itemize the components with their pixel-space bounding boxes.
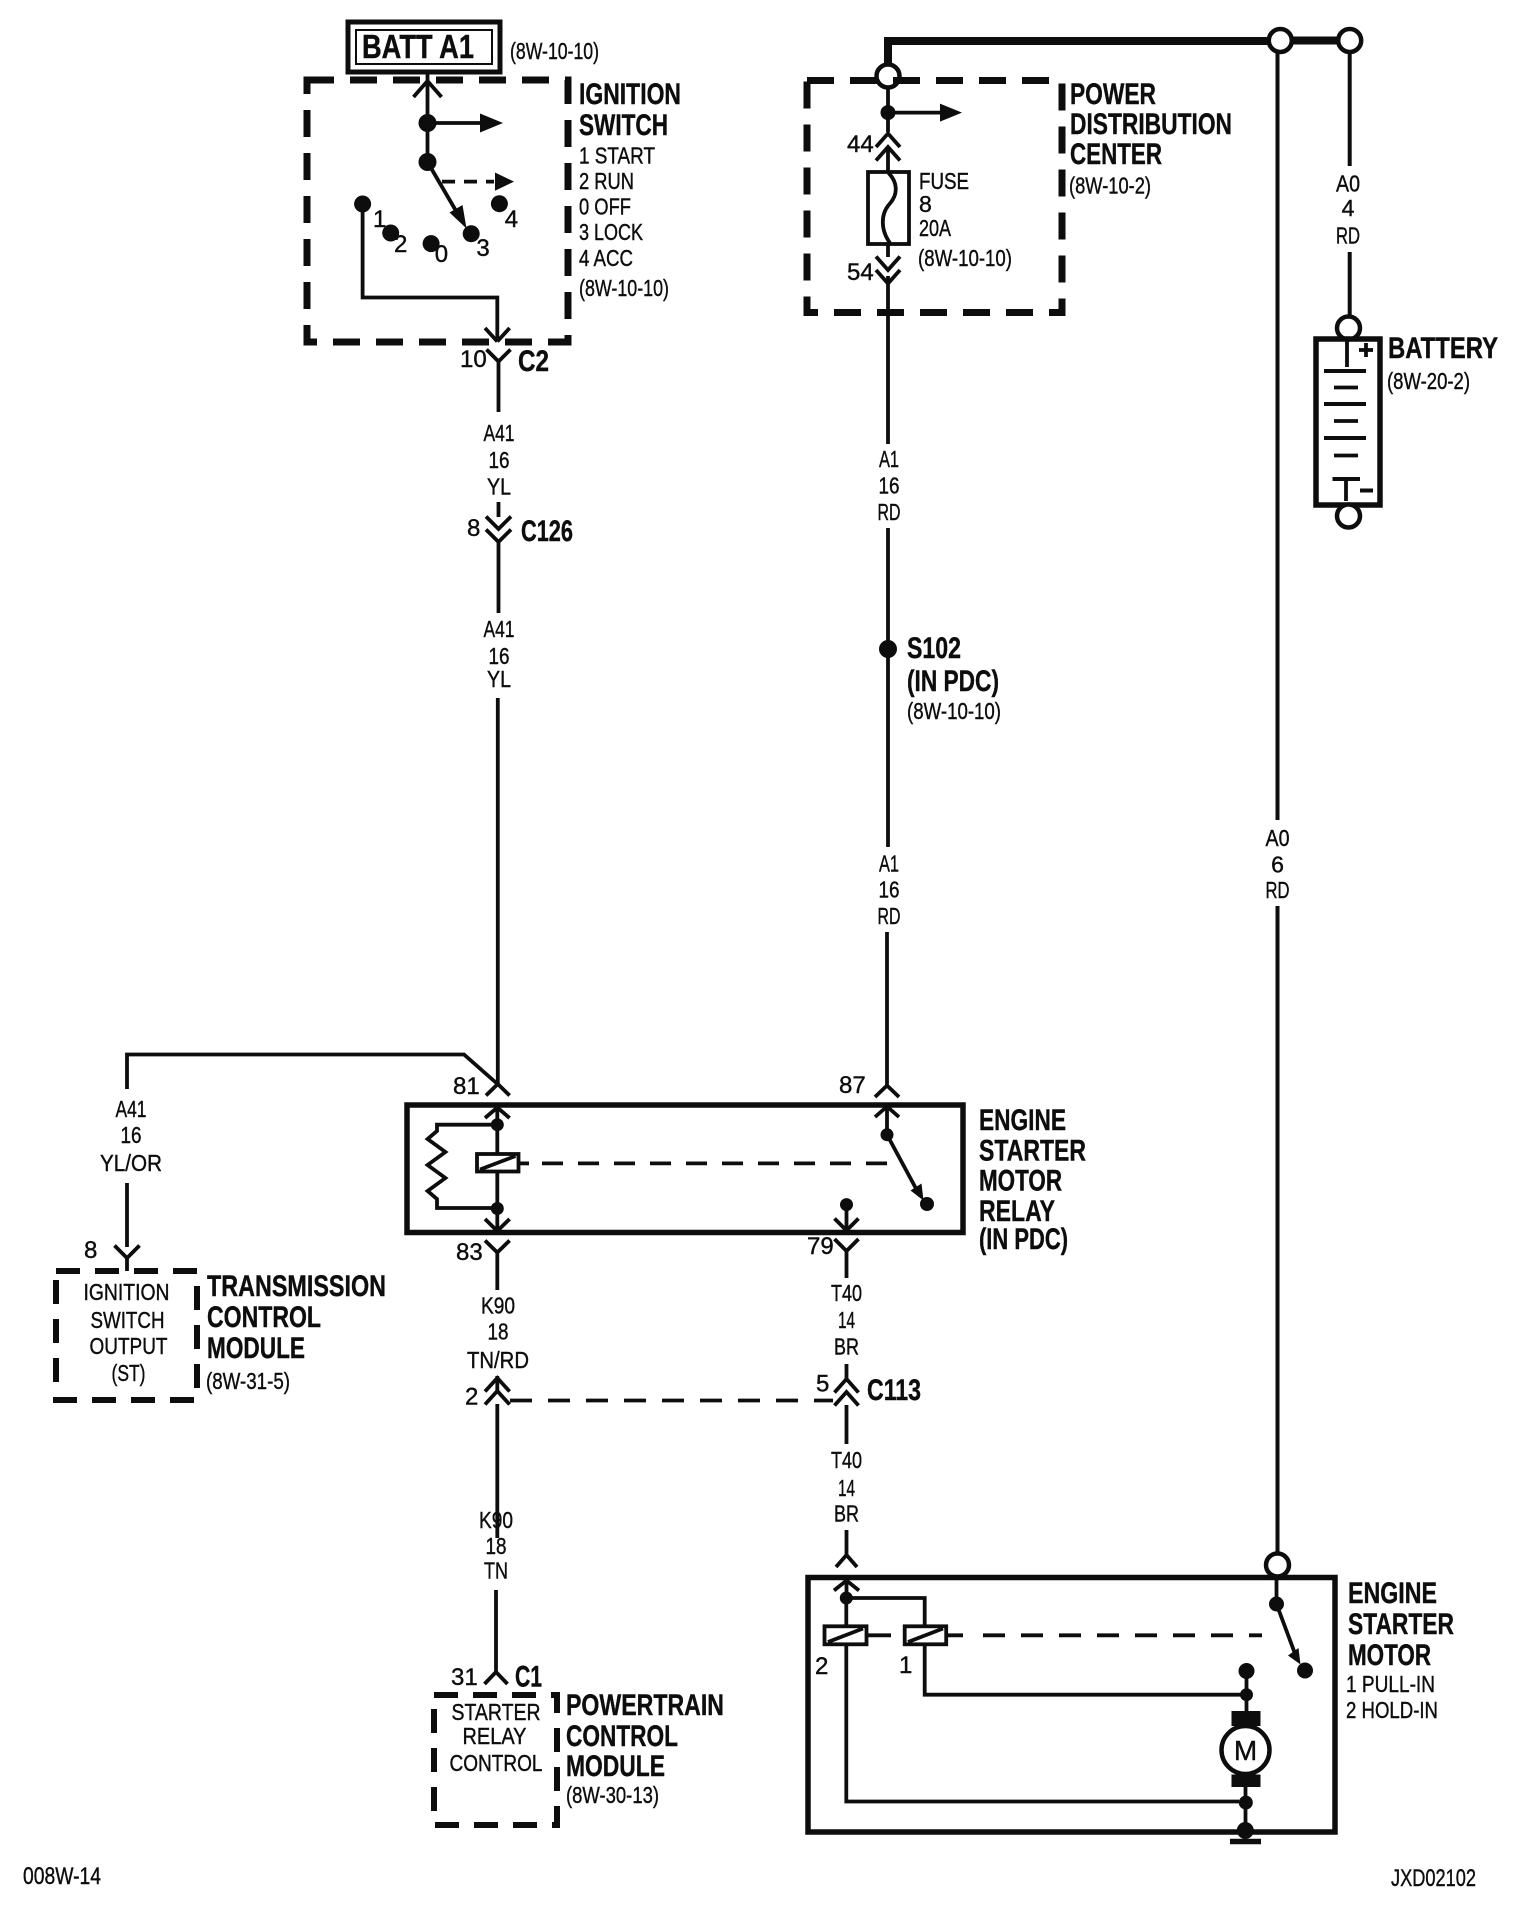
wire motor to bottom junction dot	[1244, 1787, 1248, 1802]
transmission control module dashed box	[56, 1271, 197, 1400]
relay common contact dot	[881, 1128, 894, 1141]
TCM internal label IGNITION SWITCH OUTPUT (ST)	[84, 1279, 170, 1386]
svg-text:A41: A41	[484, 616, 515, 642]
svg-text:81: 81	[453, 1073, 480, 1100]
svg-text:A1: A1	[879, 446, 899, 472]
engine starter motor box	[808, 1578, 1335, 1833]
fuse text FUSE 8 20A (8W-10-10)	[918, 168, 1012, 271]
battery internal top lead	[1345, 341, 1349, 367]
relay normally-open contact dot	[920, 1197, 934, 1211]
svg-text:ENGINE: ENGINE	[979, 1104, 1066, 1137]
svg-text:14: 14	[838, 1475, 855, 1501]
connector C113 pin 2 double chevron	[485, 1378, 510, 1538]
solenoid switch arm with arrowhead	[1277, 1604, 1301, 1665]
TCM pin 8 fork symbol	[115, 1246, 140, 1272]
hold-in coil 2 element	[825, 1598, 892, 1644]
svg-text:CONTROL: CONTROL	[450, 1750, 543, 1776]
svg-text:8: 8	[467, 515, 480, 542]
relay title ENGINE STARTER MOTOR RELAY (IN PDC)	[979, 1104, 1086, 1256]
wire down to splice S102	[886, 528, 890, 642]
splice label S102 (IN PDC) (8W-10-10)	[907, 632, 1001, 724]
relay pin 79 exit arrow	[835, 1205, 859, 1231]
svg-text:10: 10	[460, 346, 487, 373]
svg-text:MODULE: MODULE	[566, 1750, 665, 1783]
svg-text:IGNITION: IGNITION	[84, 1279, 170, 1305]
svg-text:(8W-10-10): (8W-10-10)	[918, 245, 1012, 271]
wire relay pin 79 down	[845, 1266, 849, 1278]
relay pin 87 entry chevron inside box	[875, 1107, 899, 1130]
svg-text:S102: S102	[907, 632, 961, 665]
connector C113 pin 5 double chevron	[835, 1364, 859, 1444]
relay resistor (parallel with coil)	[428, 1125, 498, 1208]
svg-text:MOTOR: MOTOR	[979, 1165, 1062, 1198]
svg-text:008W-14: 008W-14	[23, 1863, 101, 1890]
svg-text:STARTER: STARTER	[452, 1699, 541, 1725]
relay pin 79 contact dot	[840, 1198, 853, 1211]
wire C126 to relay pin 81	[496, 698, 500, 1084]
wire ring to solenoid pivot	[1275, 1576, 1279, 1599]
svg-text:16: 16	[879, 473, 900, 499]
svg-text:CONTROL: CONTROL	[207, 1301, 321, 1334]
svg-text:3 LOCK: 3 LOCK	[579, 219, 644, 245]
svg-text:14: 14	[838, 1307, 855, 1333]
svg-text:RD: RD	[878, 903, 901, 929]
switch position contact 0	[423, 235, 440, 252]
svg-text:79: 79	[807, 1233, 834, 1260]
relay coil bottom junction dot	[491, 1202, 504, 1215]
svg-text:A41: A41	[116, 1096, 147, 1122]
svg-text:20A: 20A	[919, 215, 952, 241]
wire label T40 14 BR (upper)	[831, 1280, 862, 1360]
svg-text:(IN PDC): (IN PDC)	[979, 1223, 1068, 1256]
power distribution center dashed box	[807, 81, 1062, 313]
wire A0 4 RD down to battery ring	[1348, 252, 1352, 318]
ignition switch heading text	[579, 78, 681, 142]
branch wire to transmission control module	[127, 1055, 498, 1090]
ring terminal battery junction on bus	[1269, 29, 1292, 52]
battery minus sign	[1360, 489, 1373, 493]
PDC heading POWER DISTRIBUTION CENTER	[1070, 78, 1232, 171]
relay pin 81 fork above box	[486, 1084, 510, 1096]
svg-text:1 PULL-IN: 1 PULL-IN	[1346, 1671, 1435, 1697]
ignition switch wiper arm to position 3	[428, 162, 467, 229]
svg-text:31: 31	[451, 1664, 478, 1691]
arrow feed to other circuits	[428, 114, 504, 133]
fuse 8 element box	[868, 172, 909, 244]
wire feed dot to wiper pivot	[426, 123, 430, 162]
svg-text:5: 5	[816, 1371, 829, 1398]
svg-text:M: M	[1234, 1735, 1257, 1766]
svg-text:TRANSMISSION: TRANSMISSION	[207, 1270, 386, 1303]
svg-text:(8W-31-5): (8W-31-5)	[206, 1368, 290, 1394]
ring terminal at PDC top	[877, 65, 900, 88]
wire thick top bus from PDC to battery junction	[888, 41, 1269, 65]
wire junction dot to pin 44	[886, 113, 890, 132]
svg-text:C126: C126	[521, 515, 573, 548]
motor feed contact dot (upper)	[1239, 1663, 1255, 1679]
svg-text:83: 83	[456, 1239, 483, 1266]
svg-text:18: 18	[486, 1533, 507, 1559]
svg-text:TN/RD: TN/RD	[467, 1347, 529, 1373]
dashed mechanical link coil 1 to solenoid contact	[983, 1633, 1262, 1637]
svg-text:3: 3	[476, 235, 489, 262]
dashed connector line C113	[510, 1399, 833, 1403]
motor feed junction dot	[840, 1592, 853, 1605]
connector C2 exit arrow at box edge	[485, 328, 510, 342]
svg-text:YL: YL	[487, 666, 511, 692]
ring terminal at motor box top	[1266, 1554, 1289, 1577]
relay pin 87 fork above box	[875, 1074, 899, 1098]
powertrain control module dashed box	[434, 1695, 557, 1825]
wire pin 54 down out of PDC	[886, 276, 890, 444]
relay coil element	[477, 1125, 529, 1209]
wire hold-in coil 2 to bottom junction	[846, 1644, 1239, 1801]
svg-text:BATTERY: BATTERY	[1388, 332, 1498, 365]
solenoid moving contact end dot	[1297, 1663, 1313, 1679]
wire label A41 16 YL (lower)	[484, 616, 515, 692]
ring terminal battery negative	[1337, 505, 1360, 528]
svg-text:MODULE: MODULE	[207, 1332, 305, 1365]
wire ring2 down to battery	[1348, 52, 1352, 166]
wire label T40 14 BR (lower)	[831, 1447, 862, 1527]
wire relay pin 83 down	[495, 1266, 499, 1290]
battery box	[1316, 339, 1380, 505]
junction dot in PDC	[881, 105, 896, 120]
wire label K90 18 TN/RD	[467, 1293, 529, 1374]
wire BATT A1 down into ignition switch with entry chevron	[414, 73, 442, 123]
wire A0 6 RD down to engine starter motor	[1276, 906, 1280, 1554]
wire ring down long A0 6 RD run	[1276, 52, 1280, 820]
svg-text:BR: BR	[834, 1501, 859, 1527]
node BATT A1 feed box	[348, 22, 500, 72]
relay pin 83 exit arrow	[485, 1209, 510, 1232]
svg-text:BATT A1: BATT A1	[362, 28, 474, 65]
svg-text:T40: T40	[831, 1447, 862, 1473]
wire S102 down	[886, 656, 890, 847]
svg-text:RELAY: RELAY	[463, 1723, 527, 1749]
svg-text:2 RUN: 2 RUN	[579, 168, 634, 194]
svg-text:RD: RD	[878, 499, 901, 525]
svg-text:16: 16	[879, 877, 900, 903]
svg-text:STARTER: STARTER	[979, 1134, 1086, 1167]
wire label A0 6 RD	[1266, 825, 1290, 903]
svg-text:SWITCH: SWITCH	[91, 1307, 165, 1333]
battery cell plates	[1324, 371, 1366, 456]
svg-text:(8W-10-10): (8W-10-10)	[510, 38, 599, 64]
battery plus sign	[1359, 343, 1373, 357]
svg-text:(8W-30-13): (8W-30-13)	[566, 1782, 659, 1808]
svg-text:TN: TN	[484, 1558, 508, 1584]
connector C126 double chevron	[486, 517, 511, 543]
motor top junction dot	[1240, 1688, 1253, 1701]
wire segment above C126	[497, 502, 501, 517]
svg-text:IGNITION: IGNITION	[579, 78, 681, 111]
arrow to other PDC circuits	[888, 104, 962, 122]
ignition switch wiper pivot dot	[419, 153, 437, 171]
svg-text:POWER: POWER	[1070, 78, 1156, 111]
svg-text:6: 6	[1271, 852, 1284, 878]
svg-text:A1: A1	[879, 851, 899, 877]
svg-text:8: 8	[84, 1237, 97, 1264]
switch position contact 4	[491, 195, 508, 212]
wire label A41 16 YL (upper)	[484, 420, 515, 500]
svg-text:(8W-10-10): (8W-10-10)	[579, 275, 669, 301]
pull-in coil 1 element	[905, 1626, 963, 1644]
svg-text:4: 4	[505, 206, 518, 233]
wire fuse to pin 54	[886, 244, 890, 257]
svg-text:POWERTRAIN: POWERTRAIN	[566, 1689, 724, 1722]
dashed mechanical link relay coil to contact	[542, 1162, 897, 1166]
svg-text:1: 1	[899, 1652, 912, 1679]
wire coil 1 to motor top junction	[925, 1644, 1241, 1694]
svg-text:0: 0	[435, 241, 448, 268]
svg-text:K90: K90	[481, 1293, 515, 1319]
svg-text:(8W-10-10): (8W-10-10)	[907, 698, 1001, 724]
svg-text:4: 4	[1342, 195, 1355, 221]
svg-text:C1: C1	[515, 1661, 542, 1694]
svg-text:54: 54	[847, 259, 874, 286]
TCM title TRANSMISSION CONTROL MODULE	[207, 1270, 386, 1365]
motor title ENGINE STARTER MOTOR	[1348, 1577, 1454, 1672]
wire K90 18 TN down to C1	[494, 1590, 498, 1667]
svg-text:(8W-10-2): (8W-10-2)	[1069, 173, 1151, 199]
svg-text:16: 16	[121, 1122, 142, 1148]
wire thick bus between rings	[1292, 37, 1339, 45]
switch position contact 3	[463, 225, 480, 242]
svg-text:SWITCH: SWITCH	[579, 109, 668, 142]
connector C2 fork symbol	[487, 350, 511, 413]
svg-text:CENTER: CENTER	[1070, 138, 1162, 171]
svg-text:RD: RD	[1266, 877, 1290, 903]
svg-text:2: 2	[394, 231, 407, 258]
switch position contact 1	[354, 196, 371, 213]
wire ring to junction dot	[886, 88, 890, 108]
svg-text:JXD02102: JXD02102	[1391, 1865, 1476, 1892]
svg-text:87: 87	[839, 1072, 866, 1099]
svg-text:16: 16	[489, 447, 510, 473]
svg-text:DISTRIBUTION: DISTRIBUTION	[1070, 108, 1232, 141]
solenoid contact pivot dot	[1269, 1597, 1284, 1612]
motor legend 1 PULL-IN 2 HOLD-IN	[1346, 1671, 1438, 1723]
svg-text:2: 2	[815, 1653, 828, 1680]
motor M with terminals	[1222, 1711, 1270, 1787]
wire label A41 16 YL/OR	[100, 1096, 162, 1176]
wire down to C113 pin 2	[495, 1376, 499, 1391]
svg-text:2: 2	[465, 1384, 478, 1411]
ignition switch position list text	[579, 143, 669, 302]
relay pin 79 fork below box	[835, 1239, 859, 1266]
wire down to motor box entry fork	[845, 1530, 849, 1555]
motor entry chevron inside box	[834, 1581, 859, 1593]
svg-text:K90: K90	[479, 1507, 513, 1533]
wire label A0 4 RD	[1336, 171, 1360, 249]
svg-text:C2: C2	[518, 345, 549, 378]
svg-text:18: 18	[488, 1319, 509, 1345]
svg-text:YL/OR: YL/OR	[100, 1150, 162, 1176]
wire contact 1 to connector C2 exit	[363, 212, 498, 330]
svg-text:C113: C113	[867, 1374, 921, 1407]
relay pin 83 fork below box	[485, 1241, 510, 1267]
svg-text:OUTPUT: OUTPUT	[90, 1333, 168, 1359]
svg-text:A0: A0	[1336, 171, 1360, 197]
pin 54 double chevron	[876, 257, 900, 284]
ring terminal battery feed end	[1338, 29, 1361, 52]
connector C1 fork at PCM	[485, 1667, 508, 1684]
relay switch arm with arrowhead	[887, 1135, 924, 1201]
switch position contact 2	[382, 225, 399, 242]
engine starter motor relay box	[407, 1105, 963, 1233]
ring terminal battery positive	[1337, 317, 1360, 340]
ignition switch dashed enclosure	[307, 80, 568, 342]
svg-text:RD: RD	[1336, 223, 1360, 249]
svg-text:BR: BR	[834, 1334, 859, 1360]
svg-text:(IN PDC): (IN PDC)	[907, 665, 999, 698]
svg-text:0 OFF: 0 OFF	[579, 194, 631, 220]
relay coil top junction dot	[491, 1118, 504, 1131]
battery negative terminal T	[1333, 479, 1361, 501]
svg-text:(8W-20-2): (8W-20-2)	[1387, 368, 1470, 394]
svg-text:A0: A0	[1266, 825, 1290, 851]
svg-text:1 START: 1 START	[579, 143, 655, 169]
dashed actuation arrow	[442, 173, 514, 191]
motor bottom junction dot	[1239, 1796, 1253, 1810]
ground bar symbol	[1230, 1839, 1261, 1845]
wire down to TCM pin 8	[125, 1183, 129, 1247]
svg-text:2 HOLD-IN: 2 HOLD-IN	[1346, 1697, 1438, 1723]
wire junction to ground dot	[1244, 1803, 1248, 1827]
wire down to relay pin 87	[885, 932, 889, 1074]
junction dot battery feed	[419, 114, 437, 132]
svg-text:STARTER: STARTER	[1348, 1608, 1454, 1641]
ground junction dot on box edge	[1237, 1822, 1254, 1839]
wire junction dot to pull-in coil 1	[846, 1598, 924, 1626]
svg-text:(ST): (ST)	[112, 1360, 146, 1386]
wire label A1 16 RD (upper)	[878, 446, 901, 525]
PCM title POWERTRAIN CONTROL MODULE	[566, 1689, 724, 1783]
relay pin 81 entry chevron	[485, 1108, 510, 1121]
wire label A1 16 RD (lower)	[878, 851, 901, 930]
svg-text:T40: T40	[831, 1280, 862, 1306]
svg-text:8: 8	[919, 191, 932, 217]
pin 44 double chevron	[876, 134, 900, 173]
svg-text:YL: YL	[487, 474, 511, 500]
wire label K90 18 TN	[479, 1507, 513, 1584]
svg-text:CONTROL: CONTROL	[566, 1720, 678, 1753]
wire contact dot to motor terminal	[1245, 1671, 1249, 1712]
wire C126 down	[497, 542, 501, 613]
svg-text:4 ACC: 4 ACC	[579, 245, 633, 271]
svg-text:ENGINE: ENGINE	[1348, 1577, 1437, 1610]
splice S102 dot	[879, 640, 897, 658]
svg-text:MOTOR: MOTOR	[1348, 1639, 1431, 1672]
PCM internal label STARTER RELAY CONTROL	[450, 1699, 543, 1776]
svg-text:44: 44	[847, 131, 874, 158]
motor entry fork above box	[836, 1555, 857, 1567]
svg-text:A41: A41	[484, 420, 515, 446]
